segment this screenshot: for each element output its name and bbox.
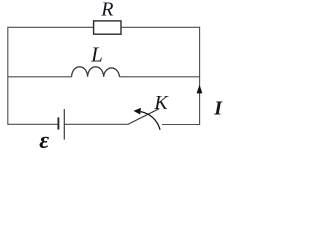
wire left vertical	[7, 27, 9, 125]
svg-text:R: R	[100, 0, 113, 21]
svg-text:I: I	[213, 98, 223, 120]
battery negative plate (short)	[57, 117, 59, 129]
wire bottom-left segment	[8, 123, 59, 125]
wire middle-left segment	[8, 76, 72, 78]
resistor R	[94, 21, 121, 34]
switch arc arrowhead	[134, 108, 142, 115]
svg-text:L: L	[90, 43, 103, 67]
wire top-right segment	[121, 26, 200, 28]
svg-text:K: K	[153, 92, 169, 114]
wire switch to bottom-right corner	[162, 124, 200, 126]
battery positive plate (tall)	[63, 109, 65, 140]
wire battery to switch	[64, 123, 128, 125]
switch K opening arc arrow	[141, 112, 160, 130]
wire right vertical	[199, 27, 201, 125]
inductor L	[72, 67, 120, 77]
wire top-left segment	[8, 26, 94, 28]
svg-text:ε: ε	[39, 128, 49, 154]
current arrow I on right wire	[197, 85, 203, 94]
switch K lever blade	[128, 109, 159, 125]
wire middle-right segment	[120, 76, 201, 78]
